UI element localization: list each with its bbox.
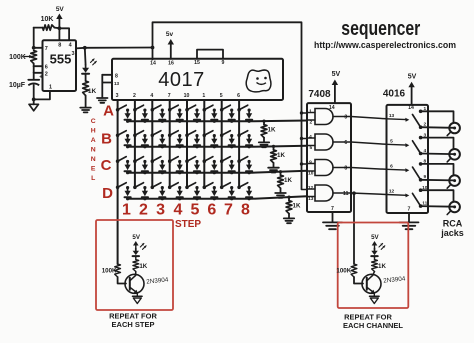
svg-text:13: 13 bbox=[114, 81, 120, 86]
diode DC7 bbox=[229, 160, 235, 174]
switch SC8 bbox=[237, 157, 247, 163]
label RCA jacks bbox=[440, 219, 464, 238]
svg-text:A: A bbox=[91, 137, 96, 144]
4017 output pin labels bbox=[116, 93, 241, 99]
wire LED to resistor bbox=[85, 75, 87, 81]
diode DA3 bbox=[159, 109, 165, 123]
diode DC3 bbox=[159, 160, 165, 174]
diode DD2 bbox=[142, 186, 148, 200]
svg-text:C: C bbox=[101, 157, 112, 174]
svg-text:3: 3 bbox=[116, 93, 119, 99]
switch SB1 bbox=[116, 131, 126, 137]
wire switch 2 to jack side bbox=[421, 153, 454, 156]
svg-text:555: 555 bbox=[50, 51, 72, 66]
svg-text:3: 3 bbox=[71, 51, 74, 57]
svg-text:1K: 1K bbox=[293, 203, 301, 210]
diode DB2 bbox=[142, 134, 148, 148]
svg-text:5: 5 bbox=[309, 145, 312, 151]
svg-text:4017: 4017 bbox=[158, 69, 205, 91]
wire gate 4 output to 4016 control bbox=[351, 193, 387, 195]
node gate 1 common input bbox=[300, 111, 303, 114]
svg-text:10µF: 10µF bbox=[9, 82, 26, 89]
ground under 4017 reset pins bbox=[97, 98, 108, 103]
AND gate 3 bbox=[307, 160, 351, 177]
switch SC1 bbox=[116, 157, 126, 163]
svg-text:10: 10 bbox=[308, 171, 314, 177]
diode DB1 bbox=[125, 134, 131, 148]
svg-text:N: N bbox=[91, 156, 96, 163]
switch SC4 bbox=[168, 157, 178, 163]
switch SD3 bbox=[151, 183, 161, 189]
svg-text:C: C bbox=[91, 118, 96, 125]
node ground junction 555 bbox=[32, 98, 36, 102]
switch U4 4016 body bbox=[387, 105, 429, 213]
diode DB7 bbox=[229, 134, 235, 148]
AND gate 2 bbox=[307, 134, 351, 151]
wire gate 1 output to 4016 control bbox=[351, 117, 387, 119]
switch SB5 bbox=[185, 131, 195, 137]
doodle face on 4017 bbox=[246, 70, 271, 92]
wire step column 4 bbox=[169, 100, 171, 187]
analog switch 2 bbox=[387, 132, 427, 155]
svg-text:2: 2 bbox=[133, 93, 136, 99]
switch SB8 bbox=[237, 131, 247, 137]
svg-text:A: A bbox=[103, 103, 114, 120]
svg-text:1K: 1K bbox=[268, 127, 276, 134]
svg-text:4: 4 bbox=[309, 134, 312, 140]
wire tap down to channel driver bbox=[353, 193, 355, 264]
switch SD4 bbox=[168, 183, 178, 189]
LED step indicator bbox=[133, 243, 147, 257]
wire 10K left to pin7 node bbox=[34, 28, 43, 48]
svg-text:8: 8 bbox=[115, 74, 118, 80]
wire step column 1 bbox=[117, 100, 119, 264]
svg-text:sequencer: sequencer bbox=[341, 17, 420, 39]
ground pulldown A bbox=[259, 138, 269, 148]
resistor 1K pulldown B bbox=[271, 146, 286, 163]
svg-text:6: 6 bbox=[237, 93, 240, 99]
wire step column 2 bbox=[134, 100, 136, 187]
svg-text:1: 1 bbox=[122, 202, 131, 219]
switch SB4 bbox=[168, 131, 178, 137]
wire channel row D bbox=[128, 196, 307, 199]
label step numbers 1-8 bbox=[122, 202, 250, 219]
svg-text:3: 3 bbox=[156, 202, 165, 219]
diode DB6 bbox=[211, 134, 217, 148]
svg-text:3: 3 bbox=[344, 115, 347, 121]
svg-text:9: 9 bbox=[222, 60, 225, 66]
svg-text:7408: 7408 bbox=[308, 89, 331, 100]
wire 5V node to pin 8 bbox=[58, 28, 60, 40]
ground pulldown B bbox=[268, 163, 279, 173]
wire 7408 pin 7 to ground bbox=[332, 212, 334, 222]
svg-text:D: D bbox=[102, 185, 113, 202]
switch SD8 bbox=[237, 183, 247, 189]
label 7408 bbox=[308, 89, 331, 100]
svg-text:6: 6 bbox=[390, 163, 393, 169]
wire emitter to ground step bbox=[136, 293, 138, 296]
AND gate 1 bbox=[307, 109, 351, 126]
wire common to gate 2 input bbox=[302, 138, 308, 140]
svg-text:1K: 1K bbox=[284, 177, 292, 184]
wire step column 3 bbox=[151, 100, 153, 187]
ground under 555 bbox=[29, 99, 39, 110]
svg-text:6: 6 bbox=[207, 202, 216, 219]
power +5V step LED bbox=[132, 234, 140, 248]
svg-text:1: 1 bbox=[49, 85, 52, 91]
wire switch 3 to jack top bbox=[421, 164, 454, 175]
resistor 100K channel bbox=[336, 264, 356, 277]
diode DC6 bbox=[211, 160, 217, 174]
svg-text:6: 6 bbox=[344, 140, 347, 146]
node LED branch junction bbox=[83, 46, 87, 50]
diode DB8 bbox=[246, 134, 252, 148]
annotation box repeat for each channel bbox=[338, 223, 409, 309]
diode DA6 bbox=[211, 109, 217, 123]
wire common to gate 3 input bbox=[302, 163, 308, 165]
svg-text:L: L bbox=[91, 175, 95, 182]
diode DD1 bbox=[125, 186, 131, 200]
svg-text:5: 5 bbox=[191, 202, 200, 219]
wire step column 7 bbox=[221, 100, 223, 187]
svg-text:1K: 1K bbox=[88, 88, 97, 95]
diode DC1 bbox=[125, 160, 131, 174]
title sequencer bbox=[341, 17, 420, 39]
svg-text:2: 2 bbox=[45, 71, 48, 77]
LED clock indicator bbox=[82, 59, 96, 75]
svg-text:13: 13 bbox=[308, 196, 314, 202]
switch SA7 bbox=[220, 105, 230, 111]
switch SC3 bbox=[151, 157, 161, 163]
wire 4016 pin 7 to ground bbox=[408, 213, 410, 222]
ground under clock LED bbox=[80, 108, 91, 113]
RCA jack 3 bbox=[447, 175, 460, 188]
potentiometer 100K bbox=[9, 51, 36, 64]
wire 555 pin 3 output bbox=[76, 47, 85, 50]
diode DB3 bbox=[159, 134, 165, 148]
switch SC6 bbox=[203, 157, 213, 163]
svg-text:7: 7 bbox=[331, 206, 334, 212]
svg-text:12: 12 bbox=[389, 189, 395, 195]
svg-text:7: 7 bbox=[45, 46, 48, 52]
label channel D bbox=[102, 185, 113, 202]
wire LED to 1K channel bbox=[374, 257, 376, 260]
resistor 1K LED clock bbox=[83, 81, 97, 96]
diode DC2 bbox=[142, 160, 148, 174]
switch SD7 bbox=[220, 183, 230, 189]
wire step column 8 bbox=[238, 100, 240, 187]
wire switch 1 to jack top bbox=[421, 111, 454, 122]
svg-text:7: 7 bbox=[168, 93, 171, 99]
label STEP bbox=[175, 219, 201, 230]
diode DC8 bbox=[246, 160, 252, 174]
ground pulldown C bbox=[275, 188, 286, 198]
diode DB4 bbox=[177, 134, 183, 148]
wire step column 6 bbox=[203, 100, 205, 187]
node channel LED tap bbox=[352, 191, 356, 195]
wire step column 5 bbox=[186, 100, 188, 187]
node gate 2 common input bbox=[300, 137, 303, 140]
wire common to gate 4 input bbox=[302, 189, 308, 191]
wire switch 4 to jack top bbox=[421, 190, 454, 201]
svg-text:B: B bbox=[101, 131, 112, 148]
analog switch 4 bbox=[387, 185, 428, 208]
svg-text:12: 12 bbox=[308, 185, 314, 191]
svg-text:16: 16 bbox=[168, 61, 174, 67]
wire 10K right to 5V node bbox=[55, 27, 60, 30]
switch SB7 bbox=[220, 131, 230, 137]
wire capacitor to ground node bbox=[33, 85, 35, 99]
resistor 1K channel bbox=[372, 260, 387, 272]
wire pin 1 to ground node bbox=[34, 91, 50, 99]
transistor Q1 2N3904 step bbox=[125, 272, 169, 294]
node row D pulldown tap bbox=[287, 196, 290, 199]
RCA jack 2 bbox=[447, 149, 460, 162]
svg-text:1: 1 bbox=[309, 109, 312, 115]
resistor 1K pulldown D bbox=[286, 197, 301, 214]
node clock rail junction bbox=[151, 46, 155, 50]
svg-text:N: N bbox=[91, 147, 96, 154]
label repeat for each channel bbox=[343, 313, 403, 331]
diode DA5 bbox=[194, 109, 200, 123]
svg-text:8: 8 bbox=[344, 166, 347, 172]
svg-text:5V: 5V bbox=[332, 71, 341, 78]
wire channel row C bbox=[128, 171, 307, 173]
label 4016 bbox=[383, 89, 406, 100]
svg-text:5: 5 bbox=[390, 138, 393, 144]
svg-text:7: 7 bbox=[408, 207, 411, 213]
svg-text:2: 2 bbox=[309, 120, 312, 126]
node row B pulldown tap bbox=[272, 145, 275, 148]
resistor 100K step bbox=[102, 264, 121, 277]
wire node to pin 7 bbox=[34, 47, 43, 49]
label repeat for each step bbox=[109, 312, 157, 330]
svg-text:13: 13 bbox=[389, 113, 395, 119]
node gate 3 common input bbox=[300, 162, 303, 165]
svg-text:5v: 5v bbox=[166, 31, 174, 38]
switch SD5 bbox=[185, 183, 195, 189]
label CHANNEL vertical bbox=[91, 118, 96, 182]
wire common to gate 1 input bbox=[302, 112, 308, 114]
wire resistor to ground bbox=[85, 96, 87, 108]
LED channel indicator bbox=[371, 243, 385, 257]
wire switch 3 to jack side bbox=[421, 179, 454, 182]
svg-text:11: 11 bbox=[343, 191, 349, 197]
svg-text:4: 4 bbox=[150, 93, 153, 99]
switch SA8 bbox=[237, 105, 247, 111]
diode DA4 bbox=[177, 109, 183, 123]
label channel A bbox=[103, 103, 114, 120]
diode DA7 bbox=[229, 109, 235, 123]
switch SA6 bbox=[203, 105, 213, 111]
switch SA4 bbox=[168, 105, 178, 111]
wire emitter to ground channel bbox=[373, 293, 375, 296]
wire channel row B bbox=[128, 146, 307, 147]
diode DD3 bbox=[159, 186, 165, 200]
AND gate 4 bbox=[307, 185, 351, 202]
diode DD7 bbox=[229, 186, 235, 200]
ground under 7408 bbox=[323, 222, 342, 229]
RCA jack 4 bbox=[447, 202, 460, 215]
analog switch 3 bbox=[387, 159, 427, 182]
svg-text:5V: 5V bbox=[408, 74, 417, 81]
svg-text:STEP: STEP bbox=[175, 219, 201, 230]
diode DB5 bbox=[194, 134, 200, 148]
switch SB6 bbox=[203, 131, 213, 137]
resistor 1K step bbox=[133, 260, 148, 272]
svg-text:1K: 1K bbox=[378, 263, 386, 270]
diode DA8 bbox=[246, 109, 252, 123]
ground under channel transistor bbox=[370, 296, 380, 303]
label url casperelectronics bbox=[314, 40, 456, 51]
svg-text:6: 6 bbox=[45, 65, 48, 71]
timer U1 555 bbox=[43, 40, 77, 91]
node row A pulldown tap bbox=[262, 120, 265, 123]
power +5V supply for 4016 bbox=[408, 74, 417, 105]
svg-text:1: 1 bbox=[202, 93, 205, 99]
svg-text:7: 7 bbox=[224, 202, 233, 219]
counter U2 4017 bbox=[112, 59, 283, 100]
wire 100K to base channel bbox=[354, 277, 363, 284]
wire channel row A bbox=[128, 120, 307, 123]
wire pin2 node to capacitor bbox=[33, 73, 35, 80]
wire 4017 pins 8 13 to ground bbox=[102, 75, 112, 98]
svg-text:15: 15 bbox=[194, 60, 200, 66]
svg-text:8: 8 bbox=[241, 202, 250, 219]
wire jumper pin15 to pin9 bbox=[197, 50, 223, 59]
power +5V supply for 4017 bbox=[166, 31, 174, 59]
switch SC2 bbox=[133, 157, 143, 163]
svg-text:5V: 5V bbox=[132, 234, 140, 241]
wire LED to 1K step bbox=[135, 257, 137, 260]
wire switch 2 to jack top bbox=[421, 138, 454, 149]
diode DD6 bbox=[211, 186, 217, 200]
capacitor C1 10uF bbox=[9, 75, 43, 90]
svg-text:4016: 4016 bbox=[383, 89, 406, 100]
svg-text:2: 2 bbox=[139, 202, 148, 219]
wire pin6 node to pin 2 bbox=[34, 66, 43, 73]
wire switch 1 to jack side bbox=[421, 126, 454, 129]
ground under step transistor bbox=[133, 296, 143, 303]
switch SC5 bbox=[185, 157, 195, 163]
svg-text:EACH STEP: EACH STEP bbox=[112, 320, 155, 329]
wire 5V node to pin 4 bbox=[59, 28, 69, 40]
switch SC7 bbox=[220, 157, 230, 163]
resistor 1K pulldown C bbox=[278, 172, 293, 189]
diode DD4 bbox=[177, 186, 183, 200]
switch SA3 bbox=[151, 105, 161, 111]
svg-text:1K: 1K bbox=[277, 152, 285, 159]
diode DC5 bbox=[194, 160, 200, 174]
diode DA2 bbox=[142, 109, 148, 123]
svg-text:10: 10 bbox=[184, 93, 190, 99]
wire clock to 4017 pin 14 bbox=[85, 48, 153, 60]
svg-text:http://www.casperelectronics.c: http://www.casperelectronics.com bbox=[314, 40, 456, 51]
transistor Q2 2N3904 channel bbox=[362, 272, 406, 294]
analog switch 1 bbox=[387, 106, 427, 129]
svg-text:4: 4 bbox=[174, 202, 183, 219]
wire junction down to LED bbox=[84, 48, 87, 65]
label channel B bbox=[101, 131, 112, 148]
svg-text:8: 8 bbox=[58, 43, 61, 49]
switch SA5 bbox=[185, 105, 195, 111]
svg-text:EACH CHANNEL: EACH CHANNEL bbox=[343, 321, 403, 330]
wire switch 4 to jack side bbox=[421, 205, 454, 208]
diode DD8 bbox=[246, 186, 252, 200]
wire gate 3 output to 4016 control bbox=[351, 168, 387, 170]
resistor 1K pulldown A bbox=[261, 121, 276, 138]
svg-text:100K: 100K bbox=[102, 268, 117, 275]
wire pot bottom to pin 6 bbox=[34, 64, 43, 67]
svg-text:14: 14 bbox=[150, 61, 156, 67]
diode DC4 bbox=[177, 160, 183, 174]
wire top rail clock to 7408 gates bbox=[153, 22, 302, 189]
resistor R1 10K bbox=[41, 16, 55, 30]
svg-text:100K: 100K bbox=[9, 54, 26, 61]
power +5V supply for 555 bbox=[56, 6, 65, 28]
power +5V supply for 7408 bbox=[332, 71, 341, 103]
svg-text:E: E bbox=[91, 166, 96, 173]
svg-text:5V: 5V bbox=[371, 234, 379, 241]
switch SD6 bbox=[203, 183, 213, 189]
switch SD2 bbox=[133, 183, 143, 189]
svg-text:H: H bbox=[91, 128, 96, 135]
label channel C bbox=[101, 157, 112, 174]
gate U3 7408 body bbox=[307, 103, 351, 212]
ground pulldown D bbox=[284, 214, 294, 224]
annotation box repeat for each step bbox=[96, 220, 173, 310]
diode DA1 bbox=[125, 109, 131, 123]
svg-text:1K: 1K bbox=[139, 263, 147, 270]
power +5V channel LED bbox=[371, 234, 379, 248]
svg-text:jacks: jacks bbox=[440, 228, 464, 238]
wire 100K to base step bbox=[118, 277, 126, 284]
svg-text:9: 9 bbox=[309, 160, 312, 166]
switch SB2 bbox=[133, 131, 143, 137]
switch SA2 bbox=[133, 105, 143, 111]
svg-text:100K: 100K bbox=[336, 268, 351, 275]
node row C pulldown tap bbox=[279, 170, 282, 173]
svg-text:14: 14 bbox=[408, 105, 414, 111]
svg-text:5V: 5V bbox=[56, 6, 65, 13]
RCA jack 1 bbox=[447, 123, 460, 136]
ground under 4016 bbox=[400, 222, 419, 229]
switch SD1 bbox=[116, 183, 126, 189]
wire gate 2 output to 4016 control bbox=[351, 142, 387, 144]
node 5V junction bbox=[58, 26, 62, 30]
svg-text:10K: 10K bbox=[41, 16, 54, 23]
switch SB3 bbox=[151, 131, 161, 137]
switch SA1 bbox=[116, 105, 126, 111]
svg-text:5: 5 bbox=[220, 93, 223, 99]
diode DD5 bbox=[194, 186, 200, 200]
node pin7 junction bbox=[32, 46, 36, 50]
